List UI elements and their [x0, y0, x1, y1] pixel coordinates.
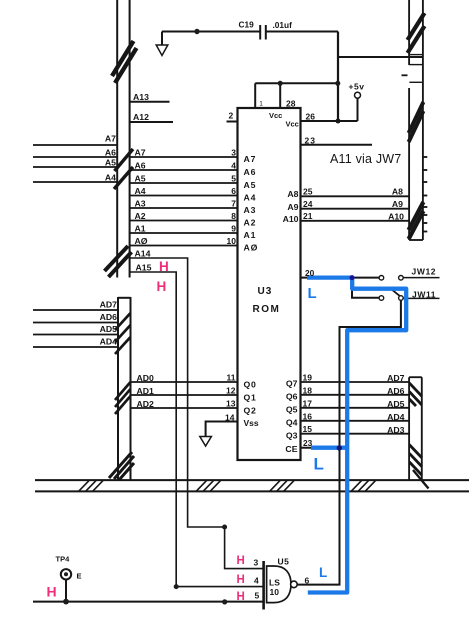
svg-text:Q2: Q2: [244, 406, 257, 416]
bus hatch at A7-A4 entries: [114, 149, 133, 189]
svg-text:H: H: [237, 574, 245, 586]
junction TP4 on pin5 wire: [63, 599, 69, 605]
svg-text:AD6: AD6: [387, 386, 405, 396]
svg-text:+5v: +5v: [349, 82, 365, 92]
svg-text:A9: A9: [287, 202, 298, 212]
wire A0 bus to U3 pin 10: [130, 245, 238, 247]
svg-text:AD4: AD4: [387, 412, 405, 422]
svg-text:6: 6: [305, 575, 310, 585]
svg-text:5: 5: [231, 174, 236, 184]
svg-text:CE: CE: [285, 444, 297, 454]
svg-text:9: 9: [231, 224, 236, 234]
svg-text:H: H: [237, 555, 245, 567]
svg-text:A1: A1: [135, 224, 146, 234]
svg-text:15: 15: [303, 424, 313, 434]
svg-text:U3: U3: [258, 286, 273, 297]
svg-text:AD4: AD4: [100, 337, 118, 347]
wire A4 from left to bus: [33, 181, 117, 183]
svg-text:A10: A10: [388, 211, 404, 221]
svg-text:A3: A3: [135, 199, 146, 209]
right bus top hatch: [408, 13, 425, 53]
wire vertical +5V feed: [337, 32, 339, 120]
capacitor C19: [260, 25, 266, 40]
svg-text:20: 20: [305, 268, 315, 278]
svg-text:A7: A7: [244, 154, 257, 164]
svg-text:A13: A13: [133, 92, 149, 102]
pin20 wire: [301, 277, 380, 279]
wire A2 bus to U3 pin 8: [130, 220, 238, 222]
svg-text:5: 5: [255, 591, 260, 601]
pin23 wire A11: [301, 144, 373, 146]
svg-text:Vcc: Vcc: [286, 120, 299, 129]
rail hatch set1: [79, 480, 104, 491]
wire Q7/AD7 U3 pin 19 to right bus: [301, 381, 410, 383]
svg-text:A8: A8: [392, 187, 403, 197]
NAND gate U5: [264, 561, 298, 610]
svg-text:H: H: [159, 259, 169, 274]
blue annotation path pin20-JW11-CE-gate: [307, 278, 406, 593]
left address bus (top segment): [117, 0, 129, 278]
wire Q6/AD6 U3 pin 18 to right bus: [301, 394, 410, 396]
svg-text:A2: A2: [135, 211, 146, 221]
right bus lower segment: [409, 377, 422, 480]
wire A4 bus to U3 pin 6: [130, 195, 238, 197]
bottom rails: [35, 480, 469, 491]
svg-text:25: 25: [303, 187, 313, 197]
wire A6 bus to U3 pin 4: [130, 169, 238, 171]
svg-text:A15: A15: [136, 263, 152, 273]
wire AD2 bus to U3 pin 13: [131, 407, 238, 409]
svg-text:A4: A4: [135, 186, 146, 196]
svg-text:8: 8: [231, 211, 236, 221]
svg-text:AD5: AD5: [100, 324, 118, 334]
jumper JW12: [379, 276, 439, 281]
wire A8 U3 pin 25 to right bus: [301, 195, 410, 197]
svg-text:23: 23: [305, 136, 316, 146]
svg-text:1: 1: [259, 101, 263, 108]
svg-text:AØ: AØ: [244, 243, 259, 253]
rail hatch set3: [351, 480, 376, 491]
svg-text:AD7: AD7: [100, 300, 118, 310]
svg-text:Vcc: Vcc: [269, 111, 282, 120]
svg-text:AD2: AD2: [137, 399, 155, 409]
wire A7 from left to bus: [33, 144, 117, 146]
svg-text:12: 12: [226, 386, 236, 396]
junction Vcc rail at +5V feed: [335, 81, 340, 86]
pin5 wire: [33, 601, 264, 603]
svg-text:19: 19: [303, 373, 313, 383]
svg-text:A11 via JW7: A11 via JW7: [330, 152, 401, 166]
bus hatch top: [112, 41, 137, 83]
test point TP4: [61, 569, 71, 602]
svg-text:A12: A12: [133, 112, 149, 122]
svg-text:A3: A3: [244, 205, 257, 215]
svg-text:Q7: Q7: [286, 379, 298, 389]
svg-text:Q0: Q0: [244, 380, 257, 390]
svg-text:JW12: JW12: [412, 267, 437, 277]
svg-text:AD1: AD1: [137, 386, 155, 396]
svg-text:H: H: [157, 279, 167, 294]
svg-text:Vss: Vss: [244, 418, 259, 428]
svg-text:AD7: AD7: [387, 373, 405, 383]
blue CE highlight: [311, 446, 349, 450]
svg-text:A2: A2: [244, 218, 257, 228]
wire AD1 bus to U3 pin 12: [131, 394, 238, 396]
wire Q5/AD5 U3 pin 17 to right bus: [301, 407, 410, 409]
junction CE wire over blue: [337, 445, 342, 450]
CE wire: [301, 447, 340, 449]
junction on pin5 wire: [222, 599, 227, 604]
svg-text:23: 23: [303, 438, 313, 448]
wire A5 bus to U3 pin 5: [130, 182, 238, 184]
svg-text:A9: A9: [392, 199, 403, 209]
svg-text:Q4: Q4: [286, 418, 298, 428]
wire AD7 from left to bus: [33, 309, 118, 311]
svg-text:16: 16: [303, 411, 313, 421]
pin2 stub: [227, 121, 238, 123]
AD0-AD2 lines bus to chip: [131, 382, 238, 408]
svg-text:A1: A1: [244, 230, 257, 240]
svg-text:24: 24: [303, 199, 313, 209]
A8 A9 A10 wires to right bus: [301, 196, 410, 221]
svg-text:Q5: Q5: [286, 405, 298, 415]
svg-text:AØ: AØ: [135, 236, 148, 246]
svg-text:C19: C19: [239, 20, 255, 30]
Q7-Q3 output wires: [301, 382, 410, 434]
wire AD0 bus to U3 pin 11: [131, 381, 238, 383]
svg-text:.01uf: .01uf: [273, 20, 293, 30]
wire C19 to corner: [266, 31, 338, 33]
junction A14 branch corner: [222, 525, 227, 530]
A14 wire to gate pin3: [130, 258, 264, 569]
wire pin26 Vcc: [301, 120, 358, 122]
svg-text:10: 10: [227, 236, 237, 246]
junction CE wire to JW11 path: [337, 445, 342, 450]
wire to right bus: [338, 56, 423, 58]
A13 line: [130, 101, 170, 103]
bus2 hatch entries: [115, 313, 131, 414]
wire AD4 from left to bus: [33, 346, 118, 348]
wire AD5 from left to bus: [33, 334, 118, 336]
ground symbol top: [156, 32, 168, 56]
wire A3 bus to U3 pin 7: [130, 207, 238, 209]
AD7-AD4 input lines from left: [33, 310, 118, 347]
right bus mid hatch: [409, 102, 424, 142]
svg-text:L: L: [308, 285, 317, 302]
svg-text:Q6: Q6: [286, 392, 298, 402]
svg-text:JW11: JW11: [412, 290, 436, 300]
svg-text:TP4: TP4: [56, 555, 71, 564]
svg-text:3: 3: [231, 148, 236, 158]
junction pin 20 wire to JW11 branch: [350, 275, 355, 280]
svg-text:A5: A5: [135, 174, 146, 184]
jumper JW11: [379, 288, 439, 300]
svg-text:Q3: Q3: [286, 431, 298, 441]
svg-text:7: 7: [231, 199, 236, 209]
+5V terminal: [355, 92, 361, 121]
svg-text:4: 4: [231, 161, 236, 171]
svg-text:LS: LS: [269, 578, 280, 588]
svg-text:A6: A6: [244, 167, 257, 177]
svg-text:28: 28: [286, 99, 296, 109]
svg-text:U5: U5: [278, 557, 290, 567]
right bus bottom hatch: [409, 202, 424, 239]
svg-text:14: 14: [225, 413, 235, 423]
svg-text:AD3: AD3: [387, 425, 405, 435]
pin14 Vss wire and ground: [200, 422, 238, 447]
right bus top segment: [409, 0, 423, 240]
svg-text:A14: A14: [135, 249, 151, 259]
wire A10 U3 pin 21 to right bus: [301, 220, 410, 222]
svg-text:E: E: [77, 572, 82, 581]
svg-text:A5: A5: [244, 180, 257, 190]
svg-text:H: H: [237, 591, 245, 603]
svg-text:AD0: AD0: [137, 373, 155, 383]
wire A1 bus to U3 pin 9: [130, 232, 238, 234]
svg-text:L: L: [314, 455, 324, 474]
svg-text:6: 6: [231, 186, 236, 196]
svg-text:A4: A4: [105, 173, 116, 183]
svg-text:A6: A6: [135, 161, 146, 171]
left data bus (lower segment): [118, 297, 131, 480]
junction pin 26 Vcc: [336, 119, 341, 124]
bus hatch bottom end: [105, 246, 132, 277]
svg-text:A8: A8: [287, 189, 298, 199]
A12 line: [130, 121, 173, 123]
svg-text:A4: A4: [244, 193, 257, 203]
svg-text:2: 2: [229, 111, 234, 121]
svg-text:A10: A10: [283, 214, 299, 224]
wire to JW11: [352, 278, 379, 298]
svg-text:3: 3: [254, 558, 259, 568]
lower bus entry hatch: [409, 383, 422, 406]
svg-text:11: 11: [227, 373, 236, 383]
svg-text:A7: A7: [105, 134, 116, 144]
wire Q3/AD3 U3 pin 15 to right bus: [301, 433, 410, 435]
wire A5 from left to bus: [33, 166, 117, 168]
svg-text:A7: A7: [135, 148, 146, 158]
wire A6 from left to bus: [33, 156, 117, 158]
svg-text:Q1: Q1: [244, 393, 257, 403]
svg-text:AD6: AD6: [100, 312, 118, 322]
wire Vcc pins 1,28: [255, 83, 338, 108]
svg-text:4: 4: [254, 576, 259, 586]
svg-text:26: 26: [306, 112, 316, 122]
svg-text:ROM: ROM: [253, 304, 281, 315]
right bus nubs: [423, 157, 427, 232]
svg-text:AD5: AD5: [387, 399, 405, 409]
svg-text:A5: A5: [105, 158, 116, 168]
svg-text:18: 18: [303, 385, 313, 395]
junction on C19 ground wire: [194, 29, 199, 34]
chip U3 outline: [238, 108, 301, 460]
lower bus bottom hatch: [409, 445, 428, 489]
svg-text:17: 17: [303, 398, 313, 408]
A7-A0 lines bus to chip: [130, 157, 238, 246]
svg-text:10: 10: [270, 587, 280, 597]
wire Q4/AD4 U3 pin 16 to right bus: [301, 420, 410, 422]
wire A9 U3 pin 24 to right bus: [301, 208, 410, 210]
wire A7 bus to U3 pin 3: [130, 156, 238, 158]
svg-text:21: 21: [303, 211, 313, 221]
bus2 hatch bottom: [109, 452, 134, 480]
junction pin 28 Vcc: [278, 81, 283, 86]
wire AD6 from left to bus: [33, 322, 118, 324]
rail hatch set2b: [270, 480, 295, 491]
svg-text:L: L: [319, 565, 327, 580]
A15 wire to gate pin4: [130, 272, 264, 587]
svg-text:13: 13: [226, 399, 236, 409]
wire JW11 down to CE and gate: [297, 300, 401, 584]
A7-A4 input lines from left: [33, 145, 117, 182]
rail hatch set2: [196, 480, 221, 491]
svg-text:H: H: [47, 584, 57, 600]
svg-text:A6: A6: [105, 148, 116, 158]
junction A15 wire to gate pin 4: [174, 584, 179, 589]
right bus ticks: [402, 55, 423, 83]
wire ground to C19: [162, 31, 260, 33]
